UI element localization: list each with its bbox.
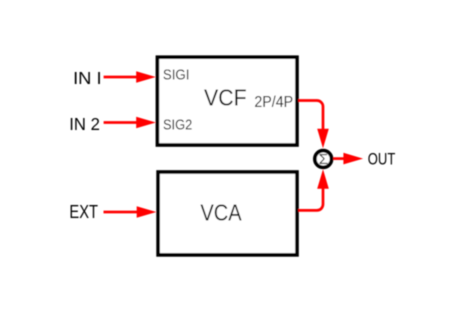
svg-text:Σ: Σ bbox=[319, 151, 328, 168]
wire IN1 arrow into VCF SIG1 bbox=[104, 71, 156, 83]
svg-text:SIGI: SIGI bbox=[163, 68, 190, 84]
svg-text:EXT: EXT bbox=[69, 201, 98, 222]
svg-text:2P/4P: 2P/4P bbox=[254, 94, 293, 111]
svg-text:VCA: VCA bbox=[200, 200, 242, 226]
svg-text:IN I: IN I bbox=[73, 68, 102, 88]
wire EXT arrow into VCA bbox=[104, 206, 157, 218]
wire IN2 arrow into VCF SIG2 bbox=[104, 117, 156, 129]
block VCA (amplifier box) bbox=[158, 172, 297, 255]
wire VCF output to summing node (down arrow) bbox=[298, 101, 329, 149]
block VCF (filter box) bbox=[157, 57, 297, 145]
wire VCA output to summing node (up arrow) bbox=[298, 169, 329, 210]
svg-text:VCF: VCF bbox=[204, 85, 247, 111]
svg-text:OUT: OUT bbox=[368, 150, 396, 169]
summing node (sigma circle) bbox=[315, 151, 332, 168]
wire summing node to OUT (right arrow) bbox=[333, 153, 363, 165]
svg-text:IN 2: IN 2 bbox=[69, 114, 100, 134]
svg-text:SIG2: SIG2 bbox=[163, 117, 192, 133]
